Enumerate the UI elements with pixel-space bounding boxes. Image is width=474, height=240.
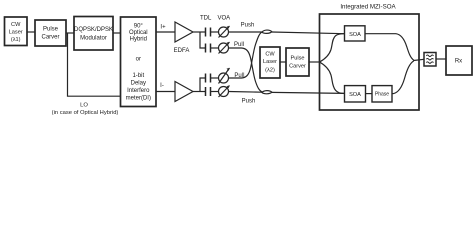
svg-text:TDL: TDL — [200, 16, 212, 22]
TDL 1 bars — [206, 28, 211, 37]
wire pulse carver2 to MZI — [309, 61, 320, 63]
wire MZI out to filter — [414, 59, 425, 60]
svg-text:EDFA: EDFA — [174, 48, 190, 54]
wire EDFA2 out — [193, 91, 206, 93]
svg-text:Laser: Laser — [263, 59, 277, 65]
svg-text:Rx: Rx — [455, 59, 462, 65]
EDFA 2 amplifier triangle — [175, 82, 193, 102]
pulse carver 1 box — [35, 20, 66, 46]
SOA 2 box — [345, 86, 366, 102]
svg-text:Laser: Laser — [9, 29, 23, 35]
modulator box DQPSK/DPSK — [74, 17, 113, 51]
svg-text:or: or — [136, 57, 141, 63]
svg-text:DQPSK/DPSK: DQPSK/DPSK — [74, 27, 113, 33]
CW laser 2 box — [260, 47, 280, 78]
wire hybrid I+ out — [156, 31, 175, 33]
filter tildes — [426, 55, 433, 57]
wire VOA1 push to coupler — [229, 31, 263, 33]
MZI output upper arc — [396, 34, 414, 61]
LO wire — [68, 33, 121, 96]
VOA 2 — [219, 43, 229, 53]
wire pulse carver to modulator — [66, 32, 74, 34]
svg-text:Pull: Pull — [234, 42, 244, 48]
integrated MZI-SOA container box — [320, 14, 420, 110]
svg-text:Interfero: Interfero — [127, 88, 150, 94]
svg-text:I+: I+ — [160, 25, 166, 31]
splitter riser lower — [200, 78, 206, 92]
svg-text:I-: I- — [160, 83, 164, 89]
bottom arm wire after phase — [392, 93, 394, 95]
svg-text:Carver: Carver — [289, 64, 306, 70]
svg-text:Optical: Optical — [129, 30, 148, 36]
Rx receiver box — [446, 46, 472, 75]
pulse carver 2 box — [286, 48, 309, 76]
svg-text:SOA: SOA — [349, 92, 361, 98]
TDL 2 bars — [206, 44, 211, 53]
svg-text:1-bit: 1-bit — [132, 73, 144, 79]
wire laser2 to pulse carver2 — [280, 61, 286, 63]
TDL 3 bars — [206, 74, 211, 83]
pull curve from VOA2 down to bottom coupler — [229, 48, 264, 92]
MZI input Y-split lower arc — [320, 62, 345, 94]
svg-text:meter(DI): meter(DI) — [126, 95, 151, 101]
svg-text:Pulse: Pulse — [43, 27, 59, 33]
coupler lens top — [262, 30, 272, 33]
VOA 4 — [219, 87, 229, 97]
svg-text:(λ2): (λ2) — [265, 68, 275, 74]
svg-text:Pulse: Pulse — [291, 56, 305, 62]
top arm wire after SOA1 — [365, 33, 396, 35]
wire hybrid I- out — [156, 91, 175, 93]
svg-text:Pull: Pull — [234, 73, 244, 79]
svg-text:Hybrid: Hybrid — [130, 37, 147, 43]
wire modulator to hybrid — [113, 32, 121, 34]
MZI input Y-split upper arc — [320, 34, 345, 62]
svg-text:Delay: Delay — [131, 80, 146, 86]
svg-text:Phase: Phase — [375, 92, 389, 98]
MZI output lower arc — [394, 61, 414, 94]
VOA arrowheads — [227, 26, 230, 88]
wire SOA2 to phase — [366, 93, 373, 95]
pull curve from VOA3 up to top coupler — [229, 32, 264, 78]
wire filter to Rx — [436, 58, 446, 60]
wire EDFA1 out — [193, 31, 206, 33]
svg-text:CW: CW — [11, 22, 21, 28]
optical bandpass filter box — [424, 53, 436, 67]
svg-text:Carver: Carver — [41, 35, 59, 41]
wire laser1 to pulse carver — [27, 31, 35, 33]
merged line to SOA2 — [272, 92, 345, 93]
CW laser 1 box (λ1) — [5, 17, 28, 46]
svg-text:Push: Push — [241, 23, 255, 29]
svg-text:VOA: VOA — [217, 16, 230, 22]
SOA 1 box — [345, 26, 366, 41]
phase shifter box — [372, 86, 392, 102]
splitter riser upper — [200, 32, 206, 48]
EDFA 1 amplifier triangle — [175, 22, 193, 42]
svg-text:Push: Push — [242, 99, 256, 105]
VOA 3 — [219, 73, 229, 83]
VOA 1 — [219, 27, 229, 37]
svg-text:(in case of Optical Hybrid): (in case of Optical Hybrid) — [52, 110, 119, 116]
svg-text:CW: CW — [265, 52, 275, 58]
coupler lens bottom — [262, 91, 272, 94]
svg-text:Integrated MZI-SOA: Integrated MZI-SOA — [340, 4, 396, 11]
svg-text:LO: LO — [80, 102, 88, 108]
wire VOA4 push to coupler — [229, 91, 263, 94]
svg-text:90°: 90° — [134, 23, 144, 29]
merged line to SOA1 — [272, 32, 345, 34]
svg-text:Modulator: Modulator — [80, 36, 107, 42]
90 deg optical hybrid / delay interferometer box — [121, 17, 157, 107]
TDL 4 bars — [206, 87, 211, 96]
svg-text:(λ1): (λ1) — [11, 37, 21, 43]
svg-text:SOA: SOA — [349, 32, 361, 38]
